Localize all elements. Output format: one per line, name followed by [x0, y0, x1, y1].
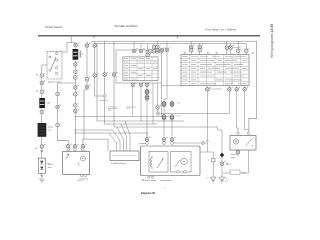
svg-text:Starter motor: Starter motor: [145, 179, 157, 182]
svg-text:Fuel Warn at / Starter: Fuel Warn at / Starter: [205, 28, 236, 32]
svg-text:Distributor: Distributor: [79, 177, 88, 180]
svg-text:filter: filter: [48, 166, 52, 169]
svg-text:E 2: E 2: [225, 181, 228, 183]
svg-text:C 35: C 35: [177, 116, 181, 118]
svg-text:Diagram 36: Diagram 36: [141, 191, 156, 195]
svg-text:Junction block: Junction block: [99, 99, 109, 102]
svg-text:and solenoid: and solenoid: [160, 180, 171, 182]
svg-text:unit: unit: [48, 129, 52, 132]
svg-text:1: 1: [164, 188, 165, 190]
svg-text:Igniter: Igniter: [48, 126, 54, 129]
svg-text:Fusible link block: Fusible link block: [111, 163, 126, 165]
svg-text:Wiring diagrams 12•36: Wiring diagrams 12•36: [270, 24, 274, 58]
svg-text:Starter: Starter: [231, 153, 237, 156]
svg-text:To ignition sw: To ignition sw: [127, 105, 137, 108]
svg-text:Ignition switch: Ignition switch: [48, 80, 62, 83]
svg-text:C 1: C 1: [150, 93, 153, 95]
svg-text:Power Source: Power Source: [46, 25, 63, 29]
svg-text:FL: FL: [82, 54, 84, 56]
svg-text:B 6: B 6: [206, 141, 209, 143]
svg-text:E1: E1: [229, 164, 231, 166]
svg-text:B-W: B-W: [127, 108, 131, 110]
svg-text:Top Main and Micro: Top Main and Micro: [114, 24, 138, 28]
svg-text:relay: relay: [231, 157, 235, 159]
svg-text:Noise: Noise: [48, 164, 54, 166]
svg-text:30A: 30A: [46, 102, 50, 105]
svg-text:W-B: W-B: [108, 110, 111, 112]
svg-text:C 34: C 34: [177, 103, 181, 105]
